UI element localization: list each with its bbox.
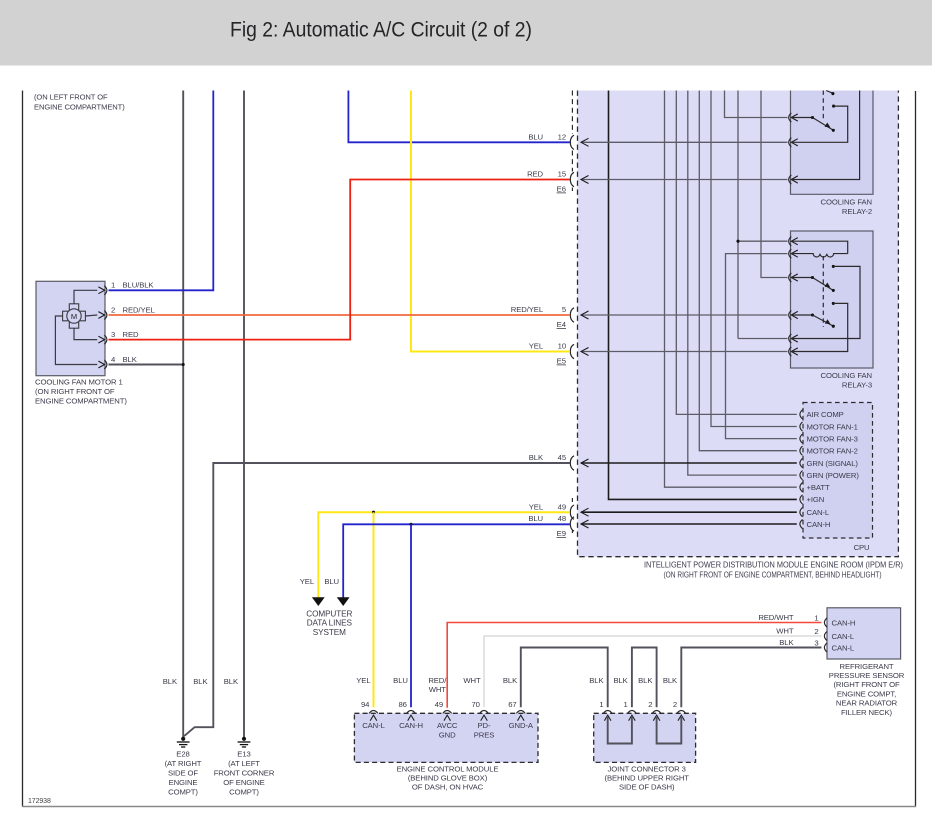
svg-text:RELAY-2: RELAY-2 [842,207,872,216]
ground E28 [181,737,185,741]
CPU pin MOTOR FAN-1 [800,422,803,431]
svg-text:BLK: BLK [163,677,178,686]
svg-text:CAN-H: CAN-H [807,520,831,529]
wire BLU branch to ECM pin 86 [410,524,412,707]
svg-text:E5: E5 [557,357,566,366]
ECM pin 94 bump [369,711,378,714]
motor pin 1 connector [98,287,104,294]
svg-text:FILLER NECK): FILLER NECK) [841,708,892,717]
svg-text:12: 12 [558,133,566,142]
connector brace row 15 [570,172,574,186]
svg-text:OF DASH, ON HVAC: OF DASH, ON HVAC [412,783,484,792]
svg-text:49: 49 [558,502,566,511]
ECM pin 67 bump [516,711,525,714]
cooling fan relay-3 box [791,231,874,368]
arrow BLU to data lines [337,597,350,606]
relay-3 switch2 pivot [811,313,814,316]
svg-text:COOLING FAN: COOLING FAN [821,371,872,380]
svg-text:ENGINE COMPARTMENT): ENGINE COMPARTMENT) [35,396,127,405]
svg-text:M: M [71,312,77,321]
svg-text:YEL: YEL [300,577,315,586]
svg-text:1: 1 [111,281,115,290]
svg-text:MOTOR FAN-1: MOTOR FAN-1 [807,422,858,431]
svg-text:COOLING FAN MOTOR 1: COOLING FAN MOTOR 1 [35,377,123,386]
svg-text:COMPT): COMPT) [168,788,198,797]
relay-2 contact-to-pin2 loop [791,106,847,142]
svg-text:OF ENGINE: OF ENGINE [223,778,264,787]
wire BLU/BLK motor pin1 to top [109,91,214,291]
svg-text:Fig 2: Automatic A/C Circuit (: Fig 2: Automatic A/C Circuit (2 of 2) [230,19,532,42]
junction relay-3 pin1 riser [736,240,739,243]
wire RED/YEL 5 row to relay-3 pin4 [581,314,788,316]
svg-text:E13: E13 [237,750,250,759]
relay-3 switch1 arm [813,278,833,291]
svg-text:BLU/BLK: BLU/BLK [123,281,155,290]
motor pin 4 connector [98,361,104,368]
svg-text:2: 2 [673,700,677,709]
svg-text:45: 45 [558,453,566,462]
refrigerant pressure sensor box [827,608,901,659]
wire BLK 45 row to CPU GRN (SIGNAL) [581,462,797,464]
junction BLK motor pin4 [182,363,185,366]
wire BLK sensor to joint pin 2 [681,648,821,708]
joint connector pin 2 bump [652,711,661,714]
wire BLK ECM 67 to joint pin1 [521,648,608,708]
CPU pin +BATT [800,483,803,492]
junction YEL to ECM 94 [372,511,375,514]
svg-text:BLK: BLK [613,676,628,685]
relay-2 common wire [791,117,812,119]
svg-text:1: 1 [814,614,818,623]
relay-3 pin1 connector [789,237,792,246]
svg-text:BLK: BLK [123,355,138,364]
CPU pin GRN (POWER) [800,471,803,480]
svg-text:BLU: BLU [528,514,543,523]
wire BLK motor pin4 to E28 riser [109,364,184,366]
wire relay-3 pin1 stub [738,240,788,242]
svg-text:E6: E6 [557,185,566,194]
svg-text:E9: E9 [557,529,566,538]
svg-text:RED/YEL: RED/YEL [511,305,544,314]
wire AIR COMP [676,91,797,415]
CPU pin MOTOR FAN-3 [800,434,803,443]
svg-text:BLK: BLK [638,676,653,685]
svg-text:(BEHIND GLOVE BOX): (BEHIND GLOVE BOX) [408,774,488,783]
CPU pin AIR COMP [800,410,803,419]
svg-text:RED: RED [527,170,543,179]
joint connector internal link 2-2 [657,717,682,744]
relay-3 switch1 NC contact [832,265,835,268]
svg-text:(ON LEFT FRONT OF: (ON LEFT FRONT OF [34,93,108,102]
svg-text:INTELLIGENT POWER DISTRIBUTION: INTELLIGENT POWER DISTRIBUTION MODULE EN… [644,561,903,570]
wire RED/WHT sensor to ECM 49 [447,623,821,708]
relay-2 pin3 loop to top [791,91,859,180]
wire relay-3 pin3 feed [761,91,788,278]
svg-text:+IGN: +IGN [807,495,825,504]
relay-3 switch2 common wire [791,314,812,316]
joint connector pin 1 bump [603,711,612,714]
header bar [0,0,932,66]
relay-3 coil [791,254,847,257]
wire GRN (POWER) [688,91,797,476]
wire WHT sensor to ECM 70 [484,636,822,707]
relay-3 switch2 arm tip contact [832,325,835,328]
svg-text:ENGINE: ENGINE [169,778,198,787]
svg-text:86: 86 [398,700,406,709]
wire relay-2 pin1 feed from top [725,91,788,118]
wire YEL 49 row to CPU CAN-L [581,511,797,513]
relay-2 switch arm tip contact [832,129,835,132]
svg-text:ENGINE COMPARTMENT): ENGINE COMPARTMENT) [34,103,125,112]
svg-text:AIR COMP: AIR COMP [807,410,844,419]
wire MOTOR FAN-3 (from relay-3 coil) [726,254,797,439]
relay-2 pin2 connector [789,138,792,147]
svg-text:CAN-L: CAN-L [832,643,855,652]
motor pin 2 connector [98,312,104,319]
wire MOTOR FAN-2 [699,91,797,451]
svg-text:(AT LEFT: (AT LEFT [228,759,260,768]
svg-text:48: 48 [558,514,566,523]
wire YEL CAN-L [318,512,570,598]
svg-text:COOLING FAN: COOLING FAN [821,198,872,207]
relay-3 switch1 pivot [811,276,814,279]
svg-text:ENGINE CONTROL MODULE: ENGINE CONTROL MODULE [397,764,499,773]
svg-text:2: 2 [111,305,115,314]
frame bottom border [22,806,916,808]
wire +IGN vertical/horizontal (black) [609,91,797,500]
wire MOTOR FAN-1 [711,91,797,427]
relay-3 pin1-to-coil loop [791,241,847,253]
frame right border [915,91,917,807]
ground E13 [242,737,246,741]
svg-text:AVCC: AVCC [437,721,458,730]
svg-text:WHT: WHT [776,627,794,636]
cooling fan relay-2 box [791,91,874,195]
svg-text:SYSTEM: SYSTEM [313,628,346,637]
svg-text:DATA LINES: DATA LINES [307,619,353,628]
svg-text:CAN-L: CAN-L [832,632,855,641]
relay-3 switch1 arm tip contact [832,289,835,292]
svg-text:BLU: BLU [393,676,408,685]
relay-3 switch2 NC contact [832,302,835,305]
svg-text:COMPUTER: COMPUTER [306,609,352,618]
svg-text:RED: RED [123,330,139,339]
svg-text:PD-: PD- [478,721,491,730]
svg-text:GND: GND [439,730,456,739]
svg-text:+BATT: +BATT [807,483,830,492]
wire BLK joint pin1 to pin2 [632,648,657,708]
relay-3 switch2 arm [813,315,833,326]
svg-text:2: 2 [814,627,818,636]
svg-text:E4: E4 [557,320,567,329]
svg-text:1: 1 [599,700,603,709]
svg-text:172938: 172938 [28,798,51,805]
relay-2 dashed coil link [822,91,824,121]
svg-text:10: 10 [558,342,566,351]
svg-text:15: 15 [558,170,566,179]
CPU pin MOTOR FAN-2 [800,446,803,455]
relay-2 pin1 connector [789,113,792,122]
svg-text:REFRIGERANT: REFRIGERANT [840,662,894,671]
svg-text:4: 4 [111,355,116,364]
svg-text:(AT RIGHT: (AT RIGHT [165,759,202,768]
wire RED/YEL motor pin2 to IPDM pin 5 [109,314,570,316]
relay-3 pin3 connector [789,273,792,282]
svg-text:67: 67 [508,700,516,709]
wire relay-3 pin5 stub [738,338,788,340]
svg-text:70: 70 [471,700,479,709]
joint connector pin 2 bump [677,711,686,714]
svg-text:WHT: WHT [429,685,447,694]
svg-text:(ON RIGHT FRONT OF ENGINE COMP: (ON RIGHT FRONT OF ENGINE COMPARTMENT, B… [664,571,882,580]
svg-text:CAN-L: CAN-L [807,508,830,517]
relay-3 pin5 connector [789,334,792,343]
svg-text:BLK: BLK [589,676,604,685]
connector brace row 5 [570,308,574,322]
motor wire to pin1 [74,290,97,304]
relay-3 dashed coil link [822,256,824,327]
svg-text:3: 3 [111,330,115,339]
motor wire to pin2 [85,315,97,316]
wire BLK 45 to ground E28 [184,463,570,736]
CPU pin +IGN [800,495,803,504]
svg-text:BLU: BLU [324,577,339,586]
svg-text:3: 3 [814,639,818,648]
svg-text:BLK: BLK [663,676,678,685]
svg-text:(ON RIGHT FRONT OF: (ON RIGHT FRONT OF [35,387,115,396]
engine control module box [354,713,538,762]
joint connector pin 1 bump [628,711,637,714]
svg-text:1: 1 [624,700,628,709]
relay-2 switch arm [813,118,833,130]
relay-3 pin2 connector [789,249,792,258]
svg-text:E28: E28 [176,750,189,759]
svg-text:BLK: BLK [529,453,544,462]
svg-text:PRESSURE SENSOR: PRESSURE SENSOR [829,671,905,680]
svg-text:YEL: YEL [356,676,371,685]
wire BLK to ground E28 (left) [182,91,184,739]
wire +BATT [665,91,797,488]
svg-text:(RIGHT FRONT OF: (RIGHT FRONT OF [833,680,900,689]
svg-text:SIDE OF: SIDE OF [168,769,198,778]
motor wire to pin4 [55,316,97,365]
connector E9 dashed bracket [571,498,573,505]
motor wire to pin3 [74,328,97,339]
svg-text:CAN-L: CAN-L [362,721,385,730]
svg-text:FRONT CORNER: FRONT CORNER [214,769,275,778]
svg-text:2: 2 [648,700,652,709]
svg-text:RED/WHT: RED/WHT [758,613,794,622]
wire YEL 10 row to relay-3 pin6 [581,351,788,353]
ECM pin 70 bump [480,711,489,714]
wire RED 15 row to relay-2 pin3 [581,179,788,181]
svg-text:YEL: YEL [529,502,544,511]
wire BLK to ground E13 [243,91,245,739]
svg-text:BLK: BLK [779,638,794,647]
svg-text:RED/: RED/ [428,676,447,685]
sensor pin 3 connector [824,643,827,652]
svg-text:WHT: WHT [463,676,481,685]
motor M symbol [69,304,78,311]
arrow YEL to data lines [312,597,325,606]
svg-text:CPU: CPU [854,543,870,552]
CPU box (dashed) [803,403,873,539]
sensor pin 2 connector [824,631,827,640]
relay-2 NC contact [832,105,835,108]
wire RED motor pin3 to IPDM pin 15 [109,180,570,340]
CPU pin CAN-L [800,508,803,517]
connector brace row 10 [570,344,574,358]
svg-text:GND-A: GND-A [509,721,534,730]
relay-3 switch2 contact loop to pin6 [791,303,847,351]
wire relay-3 pin1/pin5 riser [737,91,739,339]
ECM pin 49 bump [443,711,452,714]
connector brace row 12 [570,135,574,149]
svg-text:BLK: BLK [224,677,239,686]
relay-3 switch1 contact loop to pin5 [791,266,860,338]
connector brace row 49 [570,505,574,519]
IPDM E/R box (dashed) [578,91,899,557]
svg-text:MOTOR FAN-2: MOTOR FAN-2 [807,447,858,456]
CPU pin GRN (SIGNAL) [800,458,803,467]
joint connector 3 box [594,713,696,762]
svg-text:COMPT): COMPT) [229,788,259,797]
relay-2 cut switch arm from page 1 [826,91,832,94]
frame left border [22,91,24,807]
svg-text:BLU: BLU [528,133,543,142]
svg-text:JOINT CONNECTOR 3: JOINT CONNECTOR 3 [608,765,686,774]
svg-text:CAN-H: CAN-H [399,721,423,730]
CPU pin CAN-H [800,519,803,528]
svg-text:YEL: YEL [529,342,544,351]
relay-3 pin4 connector [789,310,792,319]
wire YEL branch to ECM pin 94 [373,512,375,707]
relay-3 switch1 common wire [791,277,812,279]
ECM pin 86 bump [407,711,416,714]
wire BLU 12 row to relay-2 pin2 [581,141,788,143]
svg-text:RED/YEL: RED/YEL [123,305,156,314]
svg-text:(BEHIND UPPER RIGHT: (BEHIND UPPER RIGHT [605,774,690,783]
svg-text:GRN (POWER): GRN (POWER) [807,471,860,480]
connector brace row 45 [570,456,574,470]
wire BLU CAN-H [343,524,570,598]
relay-2 switch pivot [811,116,814,119]
svg-text:GRN (SIGNAL): GRN (SIGNAL) [807,459,859,468]
connector brace row 48 [570,517,574,531]
junction BLU to ECM 86 [409,523,412,526]
svg-text:ENGINE COMPT,: ENGINE COMPT, [837,689,896,698]
svg-text:PRES: PRES [474,730,495,739]
wire BLU 12 from top [348,91,570,143]
svg-text:5: 5 [562,305,566,314]
svg-text:NEAR RADIATOR: NEAR RADIATOR [836,699,898,708]
svg-text:CAN-H: CAN-H [832,618,856,627]
svg-text:RELAY-3: RELAY-3 [842,381,872,390]
connector E6 dashed bracket [571,91,573,135]
cooling fan motor 1 box [36,281,105,375]
motor pin 3 connector [98,336,104,343]
svg-text:MOTOR FAN-3: MOTOR FAN-3 [807,434,858,443]
relay-2 pin3 connector [789,175,792,184]
sensor pin 1 connector [824,618,827,627]
wire BLU 48 row to CPU CAN-H [581,523,797,525]
svg-text:SIDE OF DASH): SIDE OF DASH) [619,783,675,792]
relay-3 pin6 connector [789,347,792,356]
svg-text:BLK: BLK [193,677,208,686]
svg-text:BLK: BLK [503,676,518,685]
wire YEL 10 from top [411,91,570,352]
svg-text:49: 49 [435,700,443,709]
svg-text:94: 94 [361,700,370,709]
joint connector internal link 1-1 [608,717,632,744]
